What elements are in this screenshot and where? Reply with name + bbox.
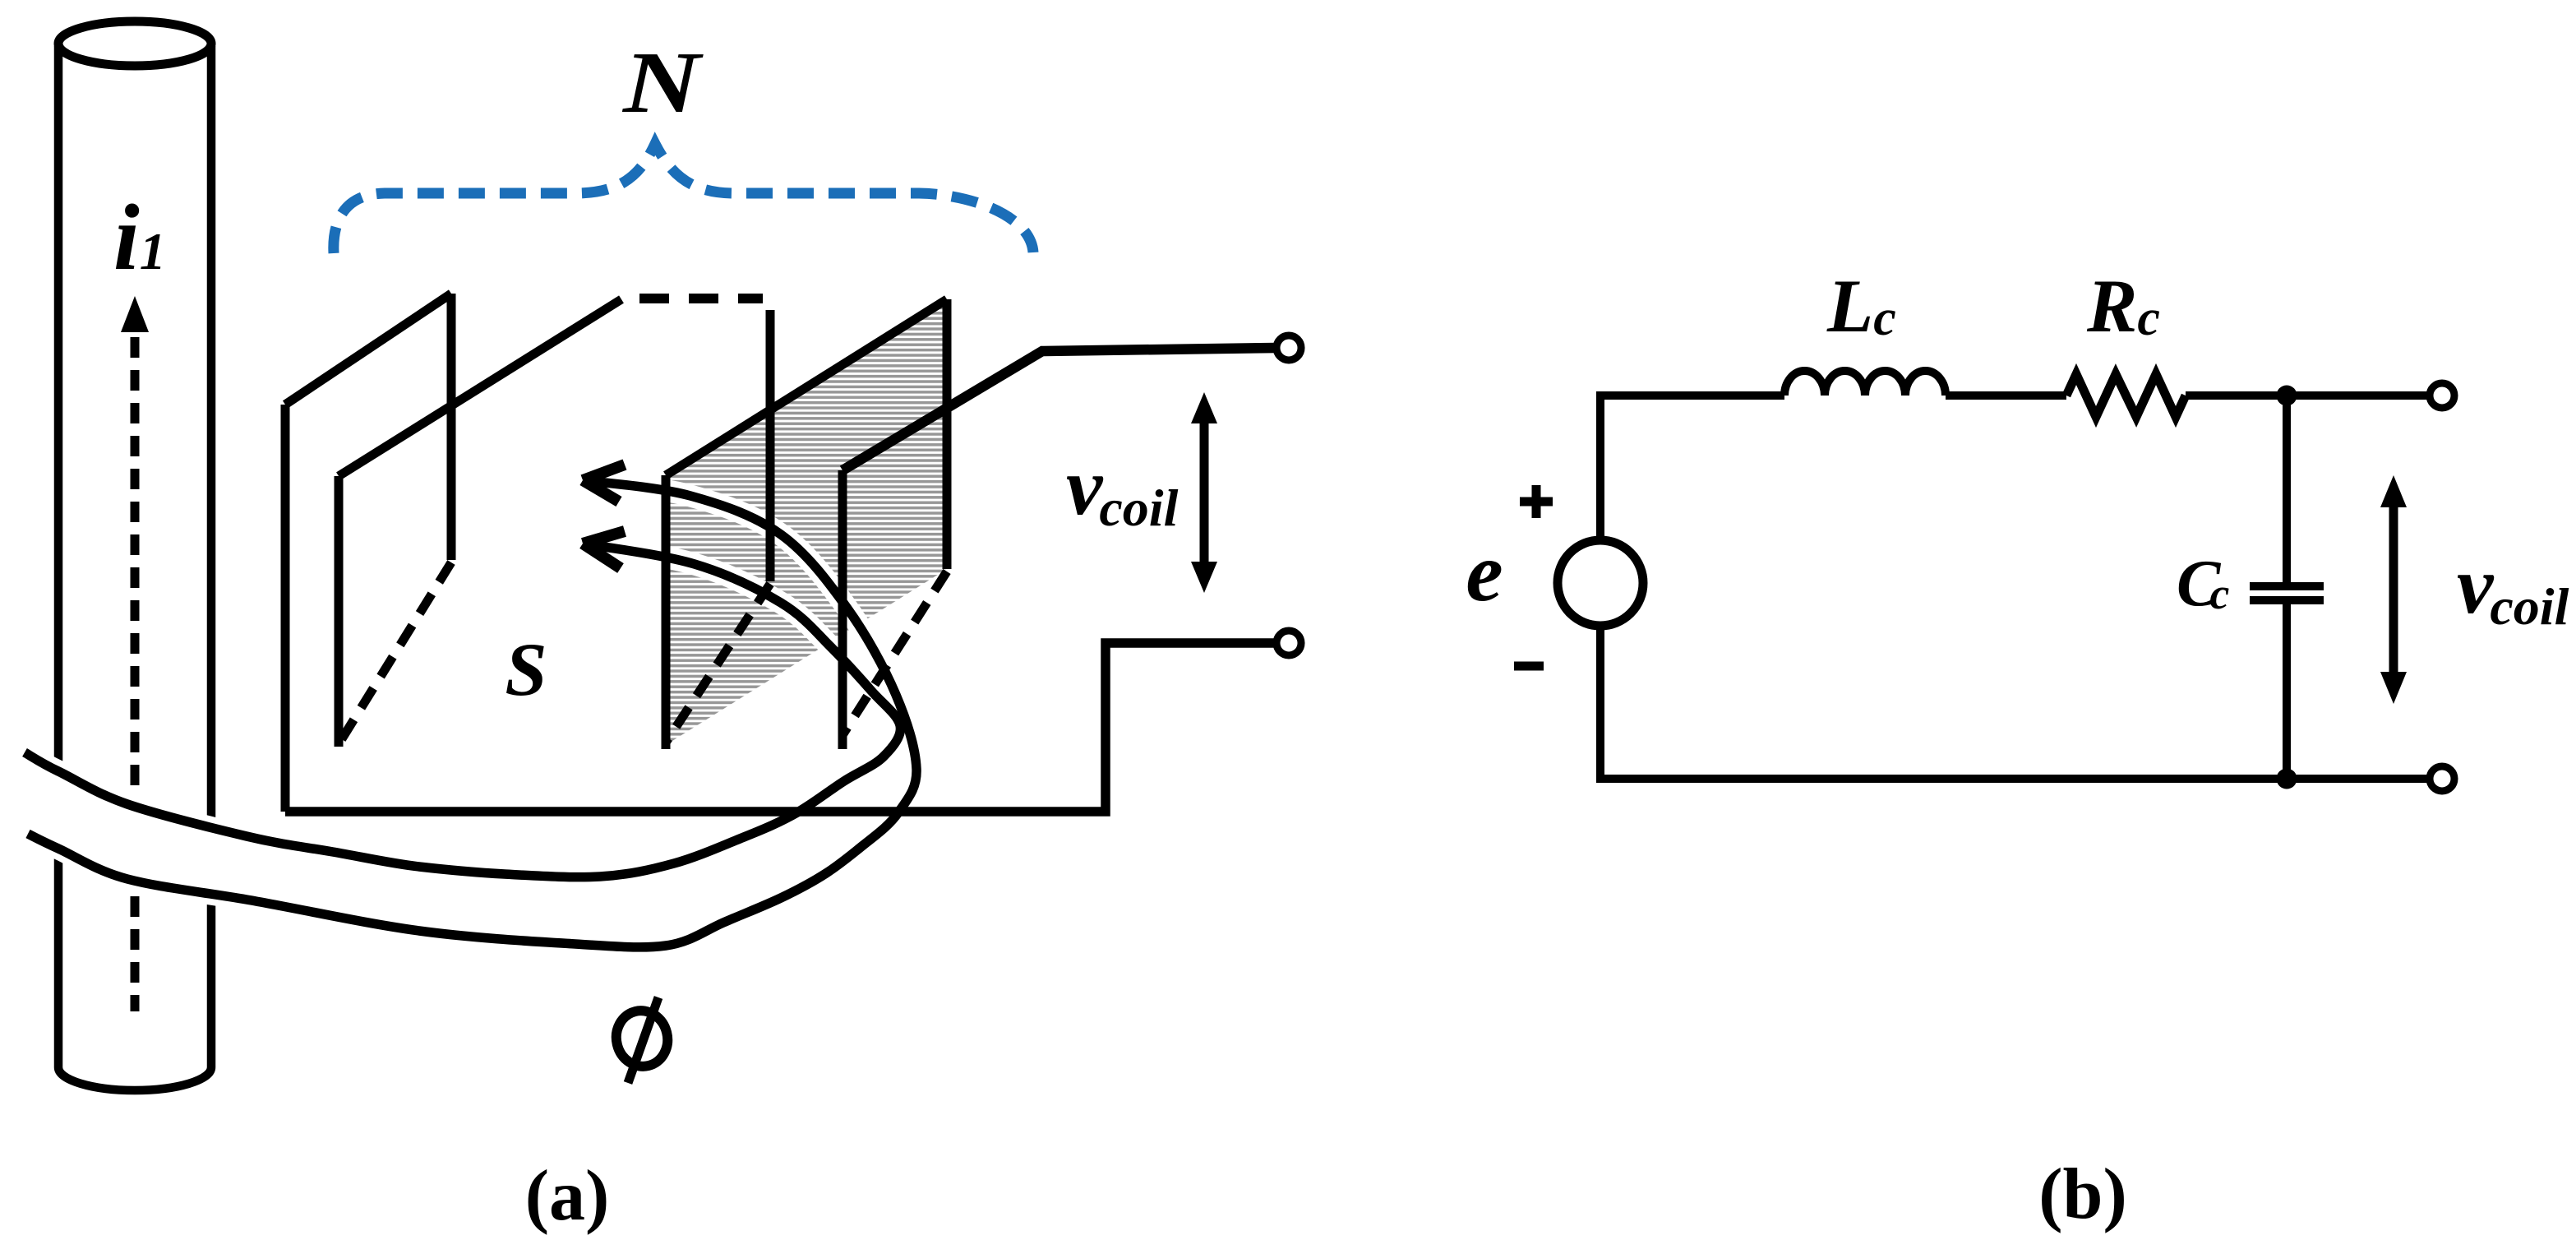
turn 2 top edge — [339, 299, 621, 476]
turn 4 top edge / top output lead — [843, 348, 1276, 470]
flux line casings (white halo) — [25, 480, 916, 947]
wire: resistor to top-right terminal — [2186, 391, 2429, 400]
minus sign — [1514, 662, 1544, 671]
turn 1-2 hidden bottom edge (dashed) — [339, 562, 451, 744]
plus sign — [1520, 485, 1553, 518]
svg-text:(b): (b) — [2038, 1154, 2127, 1234]
label phi — [611, 997, 674, 1083]
turn 3 back edge — [943, 299, 952, 569]
N brace (blue dashed) — [334, 144, 1033, 253]
turn 1 top edge — [285, 294, 451, 405]
flux arrow 2 — [583, 531, 625, 568]
hidden bottom edge to turn 4 (dashed) — [843, 571, 947, 735]
terminal 2 — [1276, 631, 1301, 655]
flux line 1 (outer, upper arrow) — [28, 480, 916, 947]
flux ribbon white band — [25, 480, 916, 947]
capacitor branch lower wire — [2283, 604, 2291, 779]
coil bottom rail — [285, 643, 1276, 812]
source e circle — [1558, 540, 1643, 626]
svg-text:N: N — [621, 34, 704, 131]
node dot bottom — [2277, 769, 2297, 789]
v_coil measure arrow (a) — [1191, 392, 1217, 593]
current axis (dashed) — [131, 337, 140, 1011]
current arrowhead — [121, 296, 149, 332]
v_coil measure arrow (b) — [2380, 475, 2407, 704]
wire: inductor to resistor — [1946, 391, 2066, 400]
terminal bottom right — [2430, 766, 2454, 791]
terminal 1 — [1276, 335, 1301, 360]
wire: source to bottom — [1600, 626, 2429, 779]
turn 4 front edge — [838, 470, 847, 749]
wire: source to inductor — [1600, 396, 1784, 540]
resistor Rc — [2066, 374, 2186, 417]
conductor cylinder — [58, 21, 211, 1090]
turn 1 back edge — [447, 294, 456, 560]
omitted turns (dashed) — [639, 294, 763, 303]
turn 1 front edge — [281, 405, 290, 812]
hidden bottom edge to turn 3 (dashed) — [666, 584, 770, 743]
svg-text:(a): (a) — [525, 1156, 610, 1236]
return edge before turn 3 — [766, 310, 775, 581]
inductor Lc — [1784, 371, 1946, 396]
flux line 2 (inner, lower arrow) — [25, 544, 900, 877]
turn 3 top edge — [666, 299, 947, 475]
svg-text:S: S — [505, 627, 547, 711]
flux arrow 1 — [583, 465, 625, 502]
node dot top — [2277, 386, 2297, 406]
svg-text:e: e — [1466, 526, 1503, 619]
coil turns — [285, 294, 1276, 812]
hatched panel (turns 3-4 surface S) — [666, 299, 947, 745]
capacitor plates — [2250, 582, 2324, 590]
terminal top right — [2430, 383, 2454, 408]
turn 2 front edge — [335, 476, 344, 747]
capacitor branch upper wire — [2283, 396, 2291, 582]
turn 3 front edge — [662, 475, 671, 749]
